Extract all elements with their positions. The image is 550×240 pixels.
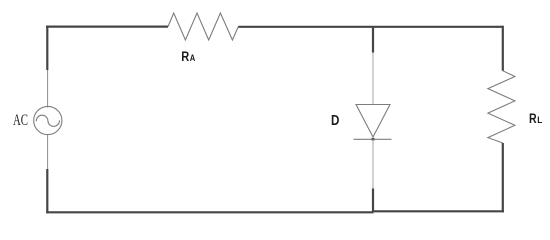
- wire top-right horizontal: [238, 26, 503, 28]
- diode D triangle: [356, 105, 390, 138]
- svg-text:A: A: [190, 53, 196, 63]
- wire middle branch anode lead (thin): [372, 53, 374, 105]
- wire left vertical lower (thick): [46, 169, 48, 213]
- AC source V1 circle: [34, 106, 62, 134]
- wire bottom-right horizontal: [372, 210, 504, 212]
- svg-text:R: R: [529, 111, 537, 127]
- svg-text:L: L: [537, 115, 542, 126]
- wire right vertical lower (thick): [502, 143, 504, 212]
- svg-text:AC: AC: [13, 112, 28, 129]
- diode D cathode bar: [354, 138, 392, 140]
- svg-text:R: R: [181, 49, 189, 64]
- wire left vertical upper (thick): [46, 26, 48, 71]
- svg-text:D: D: [331, 113, 339, 129]
- resistor RA: [168, 13, 238, 40]
- wire middle branch upper (thick): [372, 26, 374, 53]
- wire left vertical lead to source (thin): [47, 70, 49, 108]
- wire top-left horizontal: [46, 26, 168, 28]
- resistor RL: [488, 71, 515, 143]
- wire right vertical upper (thick): [502, 26, 504, 71]
- wire middle branch cathode lead (thin): [372, 139, 374, 188]
- wire middle branch lower (thick): [372, 189, 374, 213]
- diode junction dot: [372, 138, 375, 141]
- AC source sine wave: [36, 115, 59, 126]
- wire bottom-left horizontal: [46, 211, 373, 213]
- wire left vertical lead below source (thin): [47, 135, 49, 169]
